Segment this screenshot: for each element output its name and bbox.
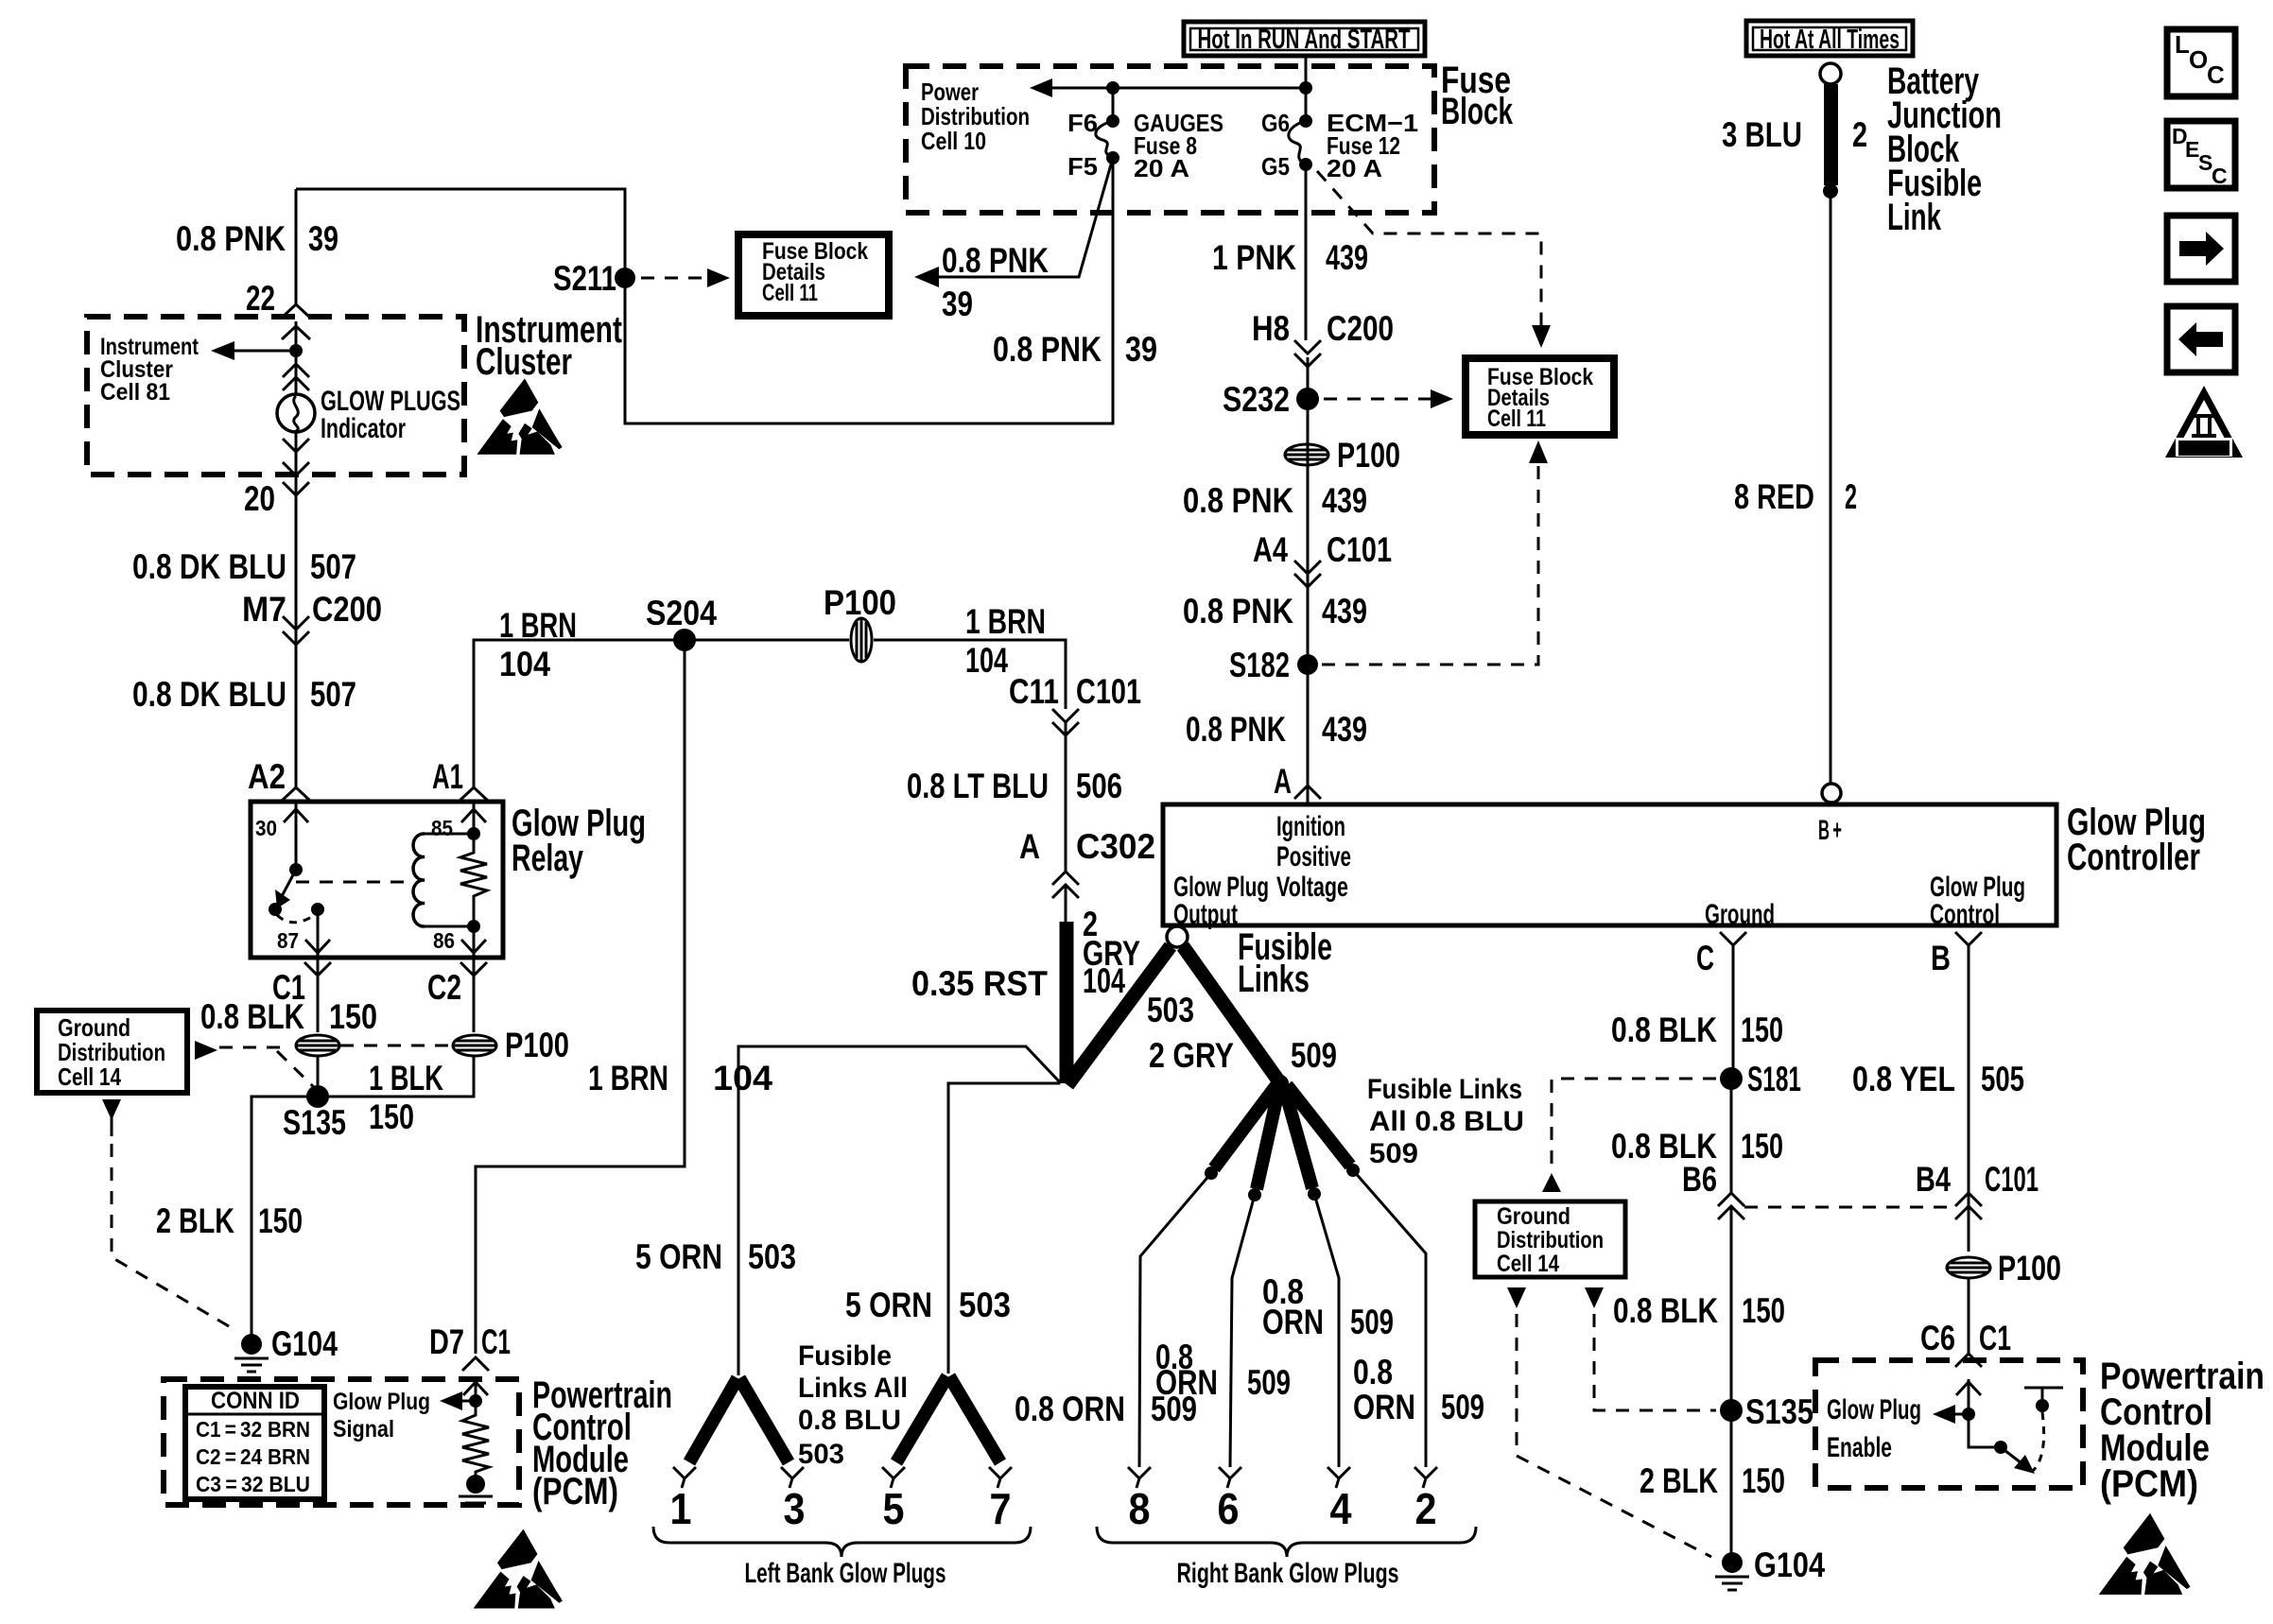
svg-text:507: 507 [310, 547, 356, 586]
wire fuse bus to power distribution arrow [1040, 87, 1306, 90]
svg-text:0.8 BLU: 0.8 BLU [798, 1405, 901, 1436]
svg-text:A: A [1274, 762, 1292, 801]
svg-text:Links All: Links All [798, 1373, 908, 1404]
svg-text:S135: S135 [1745, 1392, 1813, 1431]
svg-text:22: 22 [246, 279, 275, 318]
wire C2 P100 down and left to S135 [318, 1056, 474, 1097]
svg-text:509: 509 [1441, 1388, 1484, 1426]
glow plug terminal 7 [989, 1467, 1012, 1488]
svg-text:Block: Block [1441, 91, 1514, 132]
svg-text:CONN ID: CONN ID [211, 1388, 300, 1414]
svg-text:C200: C200 [1327, 309, 1394, 348]
pass-through grommet P100 on 1 PNK wire [1285, 444, 1328, 465]
svg-text:509: 509 [1247, 1363, 1291, 1402]
svg-text:0.8 ORN: 0.8 ORN [1015, 1390, 1125, 1428]
arrow 0.8 PNK 39 pointing left [914, 267, 939, 287]
svg-text:150: 150 [258, 1201, 303, 1240]
svg-text:Hot In RUN And START: Hot In RUN And START [1198, 25, 1411, 55]
svg-text:Enable: Enable [1827, 1432, 1892, 1463]
instrument cluster dashed outline [87, 317, 464, 475]
node on bus at F6 branch [1106, 81, 1119, 95]
svg-text:20 A: 20 A [1134, 154, 1189, 182]
svg-text:1: 1 [670, 1484, 692, 1533]
module Glow Plug Controller box [1163, 804, 2056, 925]
svg-text:503: 503 [798, 1439, 844, 1470]
pass-through grommet P100 on C1 wire [296, 1035, 339, 1056]
svg-text:S211: S211 [553, 259, 616, 298]
fusible links to glow plugs 8,6,4,2 [1214, 1085, 1276, 1168]
connector C2 below relay [473, 958, 476, 1032]
svg-text:C302: C302 [1076, 827, 1155, 866]
svg-text:439: 439 [1326, 238, 1368, 277]
svg-text:B6: B6 [1682, 1160, 1717, 1199]
svg-text:0.8 BLK: 0.8 BLK [1613, 1291, 1718, 1330]
svg-text:0.8 PNK: 0.8 PNK [1186, 710, 1286, 749]
svg-text:Ignition: Ignition [1276, 811, 1345, 842]
fusible link thick bar [1824, 84, 1838, 185]
svg-text:3 BLU: 3 BLU [1722, 115, 1802, 154]
svg-text:Distribution: Distribution [1497, 1227, 1604, 1253]
svg-text:150: 150 [1742, 1291, 1785, 1330]
svg-text:Cell 11: Cell 11 [762, 280, 818, 306]
wire inside cluster down to indicator [295, 321, 298, 394]
svg-text:1 BRN: 1 BRN [965, 602, 1046, 641]
svg-text:D7: D7 [429, 1322, 464, 1361]
wire to glow plug 8 [1139, 1173, 1211, 1467]
splice S211 [615, 268, 635, 288]
fusible link left arm from glow plug output [1067, 946, 1171, 1085]
svg-text:B +: B + [1818, 815, 1842, 846]
svg-text:Voltage: Voltage [1276, 872, 1348, 903]
arrow from Ground Distribution box [195, 1041, 217, 1060]
wire thick 2 GRY 104 fusible link feed [1065, 885, 1067, 922]
svg-text:(PCM): (PCM) [2100, 1463, 2198, 1505]
link end nodes [1205, 1166, 1218, 1180]
glow plug terminal 1 [673, 1467, 696, 1488]
svg-text:(PCM): (PCM) [532, 1471, 618, 1512]
dashed reference from fuse block to Fuse Block Details Cell 11 (lower) [1317, 171, 1541, 329]
svg-text:P100: P100 [1998, 1249, 2061, 1287]
svg-text:S204: S204 [646, 594, 717, 632]
arrow to Power Distribution [1030, 78, 1052, 97]
ESD symbol instrument cluster [477, 378, 562, 454]
svg-text:C101: C101 [1076, 672, 1141, 711]
power source banner: Hot At All Times [1746, 21, 1913, 56]
svg-text:506: 506 [1076, 767, 1122, 805]
svg-text:C3 = 32 BLU: C3 = 32 BLU [196, 1472, 310, 1496]
svg-text:F6: F6 [1067, 109, 1098, 137]
svg-text:O: O [2189, 45, 2208, 74]
svg-text:B: B [1931, 939, 1951, 977]
relay Glow Plug Relay box [251, 802, 503, 958]
svg-text:2: 2 [1852, 115, 1867, 154]
splice S232 [1296, 388, 1319, 410]
svg-text:Relay: Relay [512, 838, 584, 879]
svg-text:C6: C6 [1920, 1319, 1955, 1357]
svg-text:509: 509 [1291, 1036, 1337, 1075]
PCM dashed outline (right) [1815, 1360, 2083, 1488]
fuse GAUGES Fuse 8 20A (F6-F5) [1106, 114, 1119, 128]
svg-text:S232: S232 [1223, 380, 1290, 419]
svg-text:509: 509 [1369, 1138, 1418, 1169]
svg-text:0.8 LT BLU: 0.8 LT BLU [907, 767, 1049, 805]
svg-text:507: 507 [310, 675, 356, 714]
svg-text:C2 = 24 BRN: C2 = 24 BRN [196, 1444, 310, 1469]
svg-text:F5: F5 [1067, 152, 1098, 181]
svg-text:8 RED: 8 RED [1734, 477, 1814, 516]
svg-text:C200: C200 [312, 590, 382, 629]
glow plug terminal 4 [1327, 1467, 1350, 1488]
relay switch common node [289, 863, 303, 876]
svg-text:150: 150 [1741, 1127, 1783, 1166]
glow plug signal input wire inside PCM [475, 1379, 477, 1408]
svg-text:C101: C101 [1327, 530, 1392, 569]
svg-text:104: 104 [499, 645, 550, 683]
dashed throw arc [277, 914, 316, 923]
svg-text:104: 104 [713, 1059, 772, 1097]
wire S204 down to PCM D7 [476, 640, 685, 1354]
svg-text:439: 439 [1322, 481, 1367, 520]
svg-text:150: 150 [1741, 1011, 1783, 1049]
svg-text:150: 150 [369, 1097, 414, 1136]
svg-text:439: 439 [1322, 710, 1367, 749]
fuse ECM-1 Fuse 12 20A (G6-G5) [1299, 114, 1312, 128]
wire 1 BRN from P100 to C11 corner [874, 640, 1066, 709]
svg-text:7: 7 [990, 1484, 1012, 1533]
svg-text:30: 30 [255, 816, 277, 840]
svg-text:A1: A1 [432, 757, 463, 796]
svg-text:85: 85 [431, 816, 453, 840]
svg-text:All 0.8 BLU: All 0.8 BLU [1369, 1106, 1524, 1137]
svg-text:0.8 PNK: 0.8 PNK [1183, 481, 1293, 520]
svg-text:Cell 14: Cell 14 [58, 1063, 121, 1091]
dashed reference S181 to Ground Distribution [1552, 1079, 1716, 1167]
glow plug terminal 3 [781, 1467, 804, 1488]
fusible links glow plugs 5-7 [896, 1376, 947, 1462]
svg-text:Cell 10: Cell 10 [921, 127, 986, 155]
svg-text:509: 509 [1350, 1303, 1394, 1341]
svg-text:104: 104 [965, 641, 1008, 680]
resistor inside PCM [462, 1408, 489, 1477]
dashed throw arc [2033, 1412, 2044, 1471]
ESD symbol below PCM [474, 1529, 563, 1609]
svg-text:2 BLK: 2 BLK [1640, 1461, 1718, 1500]
svg-text:87: 87 [277, 928, 299, 953]
svg-text:1 BRN: 1 BRN [588, 1059, 668, 1097]
svg-text:OBD II: OBD II [2182, 441, 2226, 456]
svg-text:2: 2 [1415, 1484, 1437, 1533]
glow plug terminal 5 [882, 1467, 905, 1488]
svg-text:39: 39 [308, 219, 338, 258]
wire below indicator [295, 432, 298, 786]
box Ground Distribution Cell 14 (right) [1475, 1201, 1625, 1277]
wire junction to left bank pair 1-3 [738, 1046, 1061, 1375]
svg-text:A: A [1019, 827, 1040, 866]
svg-text:M7: M7 [242, 590, 286, 629]
svg-text:C: C [1696, 939, 1714, 977]
svg-text:1 BRN: 1 BRN [499, 606, 577, 645]
arrow Glow Plug Signal [457, 1400, 476, 1403]
box Fuse Block Details Cell 11 (upper) [738, 234, 889, 316]
svg-text:Cell 11: Cell 11 [1487, 406, 1546, 432]
switch arm with arrowhead [1994, 1441, 2007, 1454]
svg-text:G104: G104 [271, 1324, 338, 1363]
svg-text:5: 5 [883, 1484, 905, 1533]
svg-text:Glow Plug: Glow Plug [333, 1389, 430, 1415]
dashed arrows below Ground Distribution (right) [1507, 1287, 1526, 1308]
connector chevrons below indicator [283, 439, 309, 452]
svg-text:Controller: Controller [2067, 837, 2200, 878]
glow plug terminal 2 [1414, 1467, 1437, 1488]
wire 8 RED 2 to controller B+ [1830, 191, 1832, 784]
svg-text:ORN: ORN [1262, 1303, 1324, 1341]
splice S135 [306, 1085, 329, 1108]
splice S181 [1720, 1067, 1743, 1090]
svg-text:ORN: ORN [1353, 1388, 1415, 1426]
dashed actuation link to coil [296, 881, 404, 884]
glow plug terminal 6 [1219, 1467, 1241, 1488]
terminal Glow Plug Output circle [1167, 926, 1188, 947]
wire 1 BRN from relay pin 85 to S204 and P100 [474, 640, 849, 787]
svg-text:ORN: ORN [1155, 1363, 1218, 1402]
box Ground Distribution Cell 14 (left) [37, 1011, 187, 1093]
arrow Glow Plug Enable [1950, 1413, 1969, 1416]
connector chevron pin 22 [282, 304, 310, 318]
svg-text:C2: C2 [427, 968, 461, 1007]
svg-text:Hot At All Times: Hot At All Times [1760, 25, 1900, 55]
dashed reference S211 to Fuse Block Details [641, 277, 711, 280]
svg-text:0.8 PNK: 0.8 PNK [1183, 592, 1293, 631]
svg-text:1 PNK: 1 PNK [1212, 238, 1296, 277]
svg-text:L: L [2175, 30, 2190, 59]
svg-text:20: 20 [244, 479, 275, 518]
terminal B+ [1822, 784, 1841, 803]
svg-text:Signal: Signal [333, 1416, 394, 1443]
svg-text:503: 503 [959, 1286, 1011, 1324]
relay resistor [460, 840, 487, 926]
wire to glow plug 6 [1230, 1195, 1255, 1467]
fan junction right bank [1272, 1075, 1289, 1092]
fusible link right arm from glow plug output [1183, 946, 1278, 1080]
svg-text:Cluster: Cluster [476, 341, 572, 383]
brace Right Bank Glow Plugs [1097, 1527, 1476, 1557]
svg-text:150: 150 [1742, 1461, 1785, 1500]
svg-text:0.35 RST: 0.35 RST [911, 964, 1048, 1003]
node to instrument cluster feed [289, 344, 303, 357]
svg-text:Ground: Ground [1497, 1203, 1570, 1230]
box Fuse Block Details Cell 11 (lower) [1466, 358, 1614, 435]
svg-text:Output: Output [1173, 899, 1238, 930]
svg-text:4: 4 [1330, 1484, 1352, 1533]
svg-text:Ground: Ground [1705, 899, 1775, 930]
table CONN ID [185, 1387, 324, 1499]
svg-text:20 A: 20 A [1327, 154, 1382, 182]
wire C1 P100 to S135 [317, 1056, 320, 1097]
glow plug enable wire inside PCM [1969, 1379, 2001, 1447]
svg-text:G6: G6 [1261, 109, 1290, 137]
battery junction block terminal [1820, 63, 1841, 84]
svg-text:0.8: 0.8 [1353, 1353, 1393, 1391]
dashed branch to S135 [277, 1051, 318, 1091]
svg-text:Fusible Links: Fusible Links [1367, 1074, 1522, 1105]
glow plug terminal 8 [1128, 1467, 1151, 1488]
svg-text:86: 86 [433, 928, 455, 953]
svg-text:3: 3 [784, 1484, 806, 1533]
relay switch arm [281, 870, 296, 898]
svg-text:Fusible: Fusible [798, 1340, 892, 1372]
legend LOC box [2167, 29, 2235, 96]
svg-text:5 ORN: 5 ORN [635, 1237, 722, 1276]
svg-text:A2: A2 [248, 757, 286, 796]
svg-text:Cell 14: Cell 14 [1497, 1251, 1559, 1277]
wire to glow plug 2 [1353, 1170, 1426, 1467]
power source banner: Hot In RUN And START [1184, 22, 1425, 56]
svg-text:P100: P100 [824, 583, 896, 622]
svg-text:0.8 BLK: 0.8 BLK [1611, 1011, 1717, 1049]
legend left arrow box [2167, 306, 2235, 372]
legend right arrow box [2167, 216, 2235, 282]
fuse block dashed outline [906, 66, 1434, 213]
svg-text:C1: C1 [481, 1322, 511, 1361]
svg-text:8: 8 [1129, 1484, 1151, 1533]
relay coil [467, 827, 480, 840]
wire 0.8 LT BLU 506 [1065, 722, 1067, 872]
wire F5 diagonal to 0.8 PNK 39 arrow [931, 158, 1113, 277]
connector double chevron above indicator [283, 364, 309, 377]
svg-text:0.8 DK BLU: 0.8 DK BLU [132, 675, 286, 714]
ground G104 [241, 1334, 262, 1355]
connector C1 below relay [317, 958, 320, 1032]
svg-text:Left Bank Glow Plugs: Left Bank Glow Plugs [745, 1558, 946, 1589]
svg-text:503: 503 [748, 1237, 796, 1276]
svg-text:1 BLK: 1 BLK [369, 1059, 443, 1097]
node on bus at G6 [1299, 81, 1312, 95]
pass-through grommet P100 on C2 wire [453, 1035, 496, 1056]
dashed reference S182 to Fuse Block Details [1322, 458, 1538, 665]
dashed arrow below Ground Distribution box to G104 [102, 1099, 121, 1120]
svg-text:P100: P100 [505, 1026, 569, 1064]
svg-text:C101: C101 [1985, 1160, 2039, 1199]
svg-text:C1 = 32 BRN: C1 = 32 BRN [196, 1417, 310, 1442]
wire branch down to fuse GAUGES [1112, 88, 1115, 121]
svg-text:2: 2 [1845, 477, 1857, 516]
svg-text:39: 39 [1125, 330, 1157, 369]
wire S135 to G104 [252, 1097, 318, 1339]
svg-text:0.8 BLK: 0.8 BLK [200, 997, 304, 1036]
svg-text:Link: Link [1887, 197, 1942, 238]
svg-text:505: 505 [1981, 1060, 2024, 1098]
svg-text:C: C [2212, 164, 2228, 188]
dashed reference B6 to B4 [1744, 1206, 1955, 1209]
wire to glow plug 4 [1314, 1194, 1339, 1467]
PCM dashed outline (left) [164, 1379, 519, 1505]
svg-text:C: C [2207, 60, 2225, 89]
svg-text:A4: A4 [1253, 530, 1288, 569]
dashed reference S232 to Fuse Block Details [1324, 398, 1433, 401]
svg-text:0.8 PNK: 0.8 PNK [942, 241, 1049, 280]
splice S135 (right) [1720, 1399, 1743, 1422]
fusible links glow plugs 1-3 [689, 1378, 737, 1462]
wire P100 to C6 [1968, 1278, 1970, 1354]
svg-text:Indicator: Indicator [321, 413, 406, 444]
wire 1 PNK 439 from fuse ECM-1 down to controller [1306, 164, 1308, 804]
splice S182 [1297, 654, 1318, 675]
svg-text:P100: P100 [1337, 436, 1400, 475]
arrow to Instrument Cluster cell [229, 350, 289, 353]
svg-text:6: 6 [1218, 1484, 1240, 1533]
svg-text:2 BLK: 2 BLK [156, 1201, 234, 1240]
svg-text:C11: C11 [1009, 672, 1059, 711]
svg-text:150: 150 [329, 997, 377, 1036]
svg-text:5 ORN: 5 ORN [845, 1286, 932, 1324]
svg-text:Glow Plug: Glow Plug [1827, 1394, 1921, 1425]
wire B6 down to S135 [1730, 1206, 1733, 1558]
svg-text:Control: Control [1930, 899, 2000, 930]
svg-text:0.8 PNK: 0.8 PNK [176, 219, 286, 258]
pass-through grommet P100 on B wire [1947, 1257, 1990, 1278]
legend OBD II triangle [2165, 386, 2243, 458]
svg-text:S135: S135 [283, 1103, 346, 1142]
svg-text:104: 104 [1083, 961, 1125, 1000]
svg-text:Cell 81: Cell 81 [100, 379, 170, 406]
svg-text:0.8 YEL: 0.8 YEL [1852, 1060, 1955, 1098]
svg-text:Links: Links [1238, 959, 1310, 1000]
relay switch contacts [269, 903, 282, 916]
wire junction to left bank pair 5-7 [948, 1083, 1060, 1373]
svg-text:439: 439 [1322, 592, 1367, 631]
svg-text:0.8 PNK: 0.8 PNK [993, 330, 1102, 369]
ground G104 (right) [1722, 1552, 1743, 1573]
svg-text:H8: H8 [1252, 309, 1290, 348]
svg-text:G104: G104 [1754, 1546, 1825, 1584]
ground inside PCM [466, 1475, 485, 1494]
svg-text:B4: B4 [1916, 1160, 1951, 1199]
svg-text:503: 503 [1147, 991, 1194, 1029]
legend DESC box [2167, 121, 2235, 188]
indicator GLOW PLUGS lamp [277, 394, 315, 432]
svg-text:C1: C1 [1979, 1319, 2011, 1357]
brace Left Bank Glow Plugs [653, 1527, 1031, 1557]
wire F5 down and left to S211 loop [296, 158, 1113, 423]
svg-text:G5: G5 [1261, 152, 1290, 181]
dashed reference to P100 grommets [219, 1046, 280, 1049]
svg-text:0.8 DK BLU: 0.8 DK BLU [132, 547, 286, 586]
svg-text:2 GRY: 2 GRY [1149, 1036, 1234, 1075]
wire 0.8 PNK into instrument cluster pin 22 [295, 189, 298, 304]
splice S204 [673, 629, 696, 651]
ESD symbol below PCM (right) [2099, 1513, 2191, 1595]
wire C S181 to B6 [1730, 1083, 1733, 1193]
svg-text:Positive: Positive [1276, 841, 1351, 872]
wire from Hot In RUN banner down to fuse bus [1305, 56, 1308, 121]
svg-text:S181: S181 [1747, 1060, 1801, 1098]
svg-text:S182: S182 [1229, 646, 1290, 684]
svg-text:39: 39 [942, 285, 973, 323]
svg-text:Right Bank Glow Plugs: Right Bank Glow Plugs [1177, 1558, 1399, 1589]
switch contact T [2024, 1388, 2063, 1399]
